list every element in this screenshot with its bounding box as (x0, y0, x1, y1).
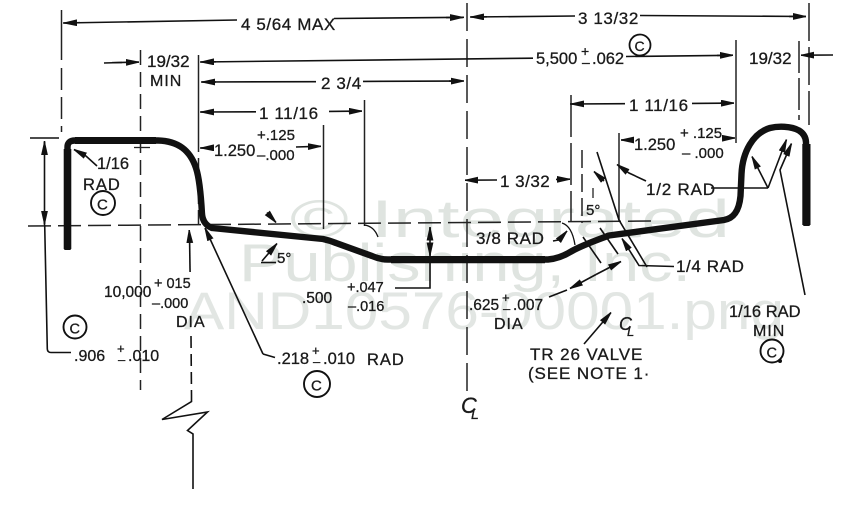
dim 1.250 right line (621, 139, 633, 141)
leader 1/2 RAD (711, 187, 768, 189)
valve centerline slanted (597, 152, 647, 267)
profile thick overlays (68, 141, 807, 260)
dim 19/32 right arrow (801, 54, 833, 56)
circled C left flange (91, 191, 115, 215)
rim centerline x467 (466, 3, 468, 397)
svg-text:–.000: –.000 (257, 147, 295, 164)
dim 1 11/16 left line (200, 111, 256, 113)
svg-text:L: L (627, 324, 634, 339)
svg-text:1 3/32: 1 3/32 (500, 172, 550, 191)
svg-text:–: – (313, 354, 321, 369)
svg-text:–.016: –.016 (348, 299, 384, 315)
svg-text:TR 26 VALVE: TR 26 VALVE (530, 345, 643, 364)
extension line x799 (flange inner right) (798, 41, 800, 120)
dim 2 3/4 line (201, 81, 316, 83)
svg-text:DIA: DIA (494, 316, 524, 333)
svg-text:1/4 RAD: 1/4 RAD (676, 257, 744, 276)
angle 5 deg left (261, 262, 276, 264)
svg-text:1 11/16: 1 11/16 (259, 104, 319, 123)
svg-text:–: – (503, 301, 511, 316)
dim 3 13/32 line (470, 16, 575, 17)
svg-text:.010: .010 (128, 348, 159, 365)
break symbol (162, 395, 208, 489)
svg-text:1/16: 1/16 (97, 155, 129, 173)
extension line x364 (1 11/16 left dim right end) (364, 100, 366, 226)
dim 5.500 line (200, 58, 533, 62)
dim 1 11/16 right line (570, 103, 625, 105)
dim .906 vertical line (44, 141, 46, 225)
svg-text:10,000: 10,000 (104, 284, 152, 301)
leader 3/8 RAD (553, 240, 561, 242)
dim 19/32 MIN left arrow (104, 62, 122, 65)
dim 1.250 left line (200, 147, 212, 149)
circled C under .218 (304, 371, 330, 397)
valve hole edge lines (583, 237, 601, 263)
svg-text:.625: .625 (469, 297, 499, 314)
svg-text:.218: .218 (277, 350, 309, 368)
svg-text:5°: 5° (277, 250, 291, 267)
rim profile (thick section line) (68, 127, 807, 260)
svg-text:3/8 RAD: 3/8 RAD (476, 229, 544, 248)
svg-text:+.047: +.047 (347, 280, 384, 296)
svg-text:C: C (70, 322, 80, 338)
svg-text:1/16 RAD: 1/16 RAD (729, 303, 801, 321)
circled C left bottom (64, 316, 87, 339)
svg-text:.906: .906 (74, 348, 105, 365)
vertical reference x582 (valve 5 deg) (581, 150, 583, 223)
leader 1/16 RAD MIN right (780, 144, 805, 296)
leader .218 RAD (263, 354, 275, 358)
dim 1 3/32 line (465, 179, 497, 181)
extension line x809 (rim outer right) (808, 3, 810, 125)
svg-text:C: C (767, 346, 777, 362)
svg-text:4 5/64 MAX: 4 5/64 MAX (241, 15, 336, 34)
svg-text:+.125: +.125 (257, 127, 295, 144)
svg-text:.500: .500 (302, 290, 333, 307)
svg-text:1.250: 1.250 (634, 136, 675, 154)
svg-text:C: C (311, 378, 322, 395)
svg-text:3 13/32: 3 13/32 (578, 9, 639, 28)
stray dot (778, 359, 782, 363)
svg-text:MIN: MIN (150, 73, 182, 90)
angle 5 deg right arrows (594, 172, 604, 182)
svg-text:.010: .010 (323, 350, 355, 368)
dashed rim diameter reference line (28, 221, 654, 226)
extension line x62 (left end of 4 5/64) (61, 10, 63, 60)
tick on x141 line (134, 147, 150, 149)
fillet arc left transition (364, 225, 378, 237)
svg-text:+ 015: + 015 (154, 276, 191, 292)
svg-text:2 3/4: 2 3/4 (321, 74, 362, 93)
dim .500 vertical double arrow (429, 227, 431, 256)
extension line x736 (bead seat right) (735, 40, 737, 143)
extension line x141 (19/32 MIN) (140, 50, 142, 390)
svg-text:– .000: – .000 (682, 145, 724, 162)
svg-text:DIA: DIA (176, 314, 206, 331)
svg-text:MIN: MIN (753, 323, 785, 340)
svg-text:RAD: RAD (367, 351, 405, 369)
fillet arc right transition (562, 223, 575, 245)
svg-text:1 11/16: 1 11/16 (629, 96, 689, 115)
leader .625 (549, 290, 567, 297)
svg-text:(SEE NOTE 1·: (SEE NOTE 1· (528, 364, 650, 383)
circled C right (761, 340, 784, 363)
svg-text:–.000: –.000 (152, 296, 188, 312)
leader 1/4 RAD (622, 239, 674, 267)
leader 1/16 RAD left (74, 150, 97, 167)
svg-text:5°: 5° (586, 202, 600, 219)
svg-text:–: – (118, 352, 126, 367)
leader 10.000 DIA arrow and stem (188, 230, 191, 241)
svg-text:.007: .007 (513, 297, 543, 314)
svg-text:19/32: 19/32 (749, 49, 792, 68)
extension line x198 (left datum) (198, 55, 200, 152)
dim .625 double arrow along slope (570, 275, 596, 289)
svg-text:1/2 RAD: 1/2 RAD (646, 180, 716, 199)
svg-text:19/32: 19/32 (147, 52, 190, 71)
extension line x324 (1.250 left dim right end) (323, 125, 325, 229)
circled C top (630, 35, 651, 56)
extension line x619 (1.250 right dim left end) (618, 133, 620, 220)
leader TR 26 VALVE (584, 313, 611, 345)
dim 4 5/64 MAX line (63, 20, 237, 23)
svg-text:C: C (635, 38, 645, 54)
svg-text:C: C (97, 197, 108, 214)
svg-text:5,500: 5,500 (536, 50, 577, 68)
svg-text:+ .125: + .125 (680, 125, 722, 142)
svg-text:.062: .062 (592, 50, 624, 68)
svg-text:L: L (471, 406, 479, 422)
extension line x571 (570, 95, 572, 222)
leader .500 elbow (395, 257, 430, 288)
svg-text:1.250: 1.250 (214, 142, 255, 160)
svg-text:–: – (582, 54, 590, 70)
leader .906 elbow (45, 225, 71, 353)
